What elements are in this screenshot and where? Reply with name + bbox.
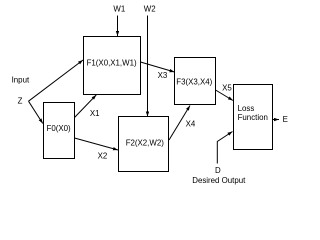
wire X1 F0 to F1 bbox=[75, 95, 97, 118]
wire X5 F3 to Loss Function bbox=[216, 90, 234, 101]
svg-text:D: D bbox=[215, 166, 221, 175]
svg-text:X4: X4 bbox=[186, 120, 196, 129]
svg-text:F3(X3,X4): F3(X3,X4) bbox=[176, 78, 212, 87]
box F2 bbox=[119, 117, 169, 172]
svg-text:Desired Output: Desired Output bbox=[192, 176, 246, 185]
wire X4 F2 to F3 bbox=[169, 106, 190, 141]
svg-text:Loss: Loss bbox=[238, 104, 255, 113]
svg-text:X1: X1 bbox=[90, 109, 100, 118]
box F1 bbox=[84, 37, 141, 95]
svg-text:Input: Input bbox=[12, 76, 30, 85]
wire W1 to F1 bbox=[117, 16, 119, 37]
wire Z to F0 bbox=[29, 101, 43, 123]
svg-text:E: E bbox=[283, 115, 288, 124]
svg-text:X3: X3 bbox=[158, 71, 168, 80]
wire X3 F1 to F3 bbox=[141, 62, 175, 72]
box F3 bbox=[175, 58, 216, 105]
svg-text:Z: Z bbox=[18, 97, 23, 106]
svg-text:X2: X2 bbox=[98, 151, 108, 160]
wire E output bbox=[273, 119, 280, 121]
svg-text:Function: Function bbox=[238, 113, 268, 122]
wire X2 F0 to F2 bbox=[75, 138, 119, 150]
svg-text:F1(X0,X1,W1): F1(X0,X1,W1) bbox=[87, 58, 137, 67]
wire Z to F1 bbox=[29, 60, 84, 101]
wire W2 to F2 bbox=[147, 16, 149, 117]
box Loss Function bbox=[234, 85, 273, 150]
svg-text:F2(X2,W2): F2(X2,W2) bbox=[126, 138, 165, 147]
box F0 bbox=[44, 103, 75, 159]
svg-text:F0(X0): F0(X0) bbox=[47, 124, 71, 133]
wire D to Loss Function bbox=[217, 132, 232, 164]
svg-text:W1: W1 bbox=[113, 5, 125, 14]
svg-text:X5: X5 bbox=[222, 84, 232, 93]
svg-text:W2: W2 bbox=[144, 5, 156, 14]
